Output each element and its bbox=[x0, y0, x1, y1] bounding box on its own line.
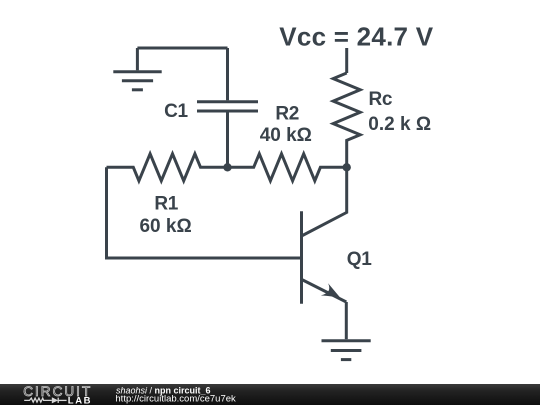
svg-text:Rc: Rc bbox=[369, 89, 393, 110]
wire emitter down bbox=[345, 302, 348, 339]
svg-text:LAB: LAB bbox=[68, 395, 92, 405]
svg-text:0.2 k Ω: 0.2 k Ω bbox=[368, 114, 431, 135]
svg-text:R2: R2 bbox=[275, 103, 299, 124]
svg-text:40 kΩ: 40 kΩ bbox=[260, 125, 312, 146]
wire Vcc stub bbox=[345, 48, 348, 73]
capacitor C1 bbox=[197, 102, 258, 111]
node A (R1/R2/C1 junction) bbox=[223, 163, 231, 171]
logo diode triangle bbox=[52, 397, 58, 403]
wire collector (node to transistor) bbox=[302, 167, 347, 236]
wire top horizontal (ground to C1) bbox=[137, 47, 227, 50]
node B (R2/Rc/collector junction) bbox=[343, 163, 351, 171]
resistor R1 bbox=[107, 154, 228, 181]
svg-text:R1: R1 bbox=[154, 194, 178, 215]
wire C1 top lead bbox=[226, 48, 229, 100]
svg-text:Q1: Q1 bbox=[347, 249, 372, 270]
svg-text:Vcc = 24.7 V: Vcc = 24.7 V bbox=[279, 22, 433, 52]
svg-text:http://circuitlab.com/ce7u7ek: http://circuitlab.com/ce7u7ek bbox=[115, 394, 236, 405]
svg-text:C1: C1 bbox=[164, 101, 188, 122]
footer bar bbox=[0, 384, 540, 405]
ground GND2 bbox=[322, 341, 371, 360]
resistor Rc bbox=[333, 73, 360, 167]
logo squiggle bbox=[24, 398, 66, 403]
emitter arrowhead bbox=[321, 283, 341, 298]
wire R1 left leg down and base wire bbox=[107, 167, 302, 258]
wire ground stub bbox=[136, 48, 139, 70]
resistor R2 bbox=[228, 154, 347, 181]
transistor Q1 bbox=[302, 211, 347, 303]
wire C1 bottom lead to node bbox=[226, 113, 229, 168]
svg-text:60 kΩ: 60 kΩ bbox=[139, 216, 191, 237]
ground GND1 bbox=[113, 72, 161, 90]
